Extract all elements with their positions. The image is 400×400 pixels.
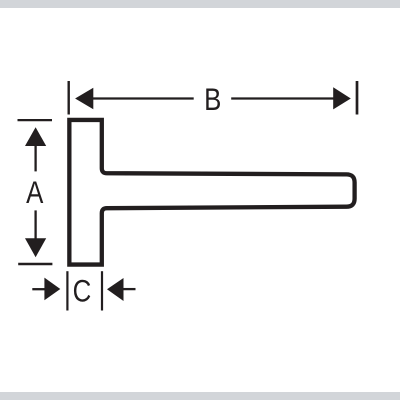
dimension B: right arrowhead: [333, 87, 351, 109]
svg-text:B: B: [204, 83, 221, 118]
dimension C: left arrowhead (pointing right): [44, 278, 60, 301]
dimension A: line upper segment: [34, 146, 36, 172]
svg-text:A: A: [26, 176, 44, 211]
dimension A: top tick: [18, 119, 53, 121]
top gray bar: [0, 0, 400, 8]
dimension B: line left segment: [93, 97, 194, 99]
label A: [26, 176, 44, 211]
svg-text:C: C: [73, 274, 92, 309]
dimension C: right tick: [101, 271, 103, 310]
dimension B: right tick: [356, 81, 359, 115]
label B: [204, 83, 221, 118]
dimension B: left arrowhead: [75, 88, 93, 110]
label C: [73, 274, 92, 309]
dimension A: line lower segment: [34, 210, 36, 238]
dimension A: down arrowhead: [25, 238, 46, 257]
dimension A: bottom tick: [18, 263, 52, 265]
dimension C: left tail line: [32, 288, 45, 290]
dimension A: up arrowhead: [25, 127, 46, 146]
bottom gray bar: [0, 392, 400, 400]
dimension B: left tick: [67, 81, 69, 115]
dimension C: right arrowhead (pointing left): [107, 278, 124, 301]
tool body (T-shaped outline: head plate + shaft with rounded tip): [69, 120, 354, 265]
dimension C: left tick: [66, 271, 68, 310]
dimension C: right tail line: [123, 288, 136, 290]
dimension B: line right segment: [231, 97, 334, 99]
